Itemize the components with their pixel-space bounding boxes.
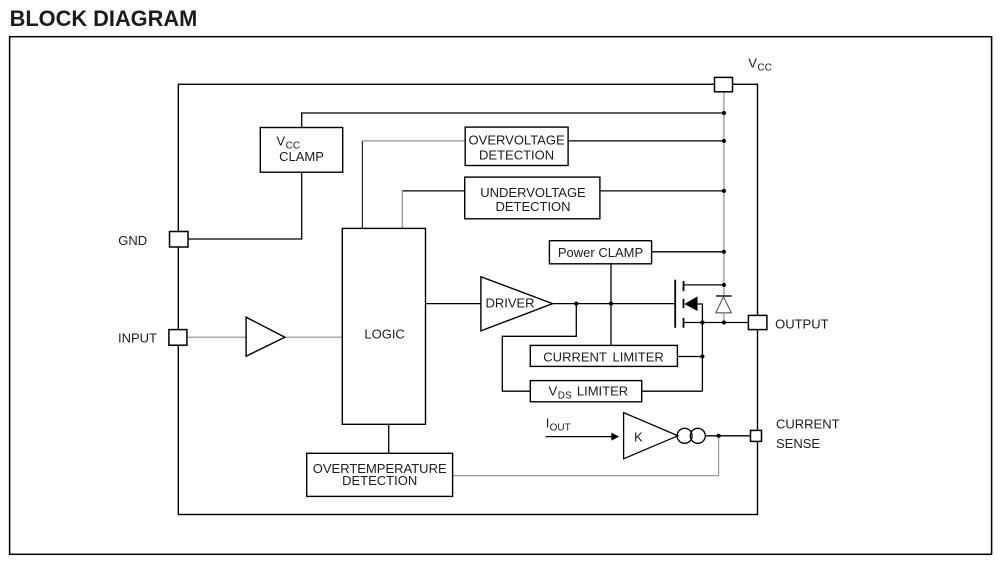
pin INPUT: [169, 330, 187, 346]
wire LOGIC to DRIVER: [426, 303, 481, 305]
svg-text:DS: DS: [558, 390, 572, 401]
label VCC: [748, 55, 772, 73]
current mirror circles: [677, 428, 705, 443]
node VCC rail junction: [722, 111, 726, 115]
block VDS LIMITER: [530, 381, 641, 402]
body arrow: [684, 296, 697, 311]
node undervoltage junction: [722, 189, 726, 193]
wire current sense to overtemperature (gray): [453, 436, 719, 476]
wire DRIVER to MOSFET gate: [553, 303, 676, 305]
svg-text:OVERVOLTAGE: OVERVOLTAGE: [469, 133, 565, 148]
wire VCC stem (gray): [723, 92, 725, 285]
block OVERVOLTAGE DETECTION: [465, 127, 568, 165]
block Power CLAMP: [549, 241, 651, 264]
wire VCC rail to VCC CLAMP: [302, 113, 724, 128]
wire VCC CLAMP bottom to GND pin: [180, 172, 302, 239]
pin GND: [170, 232, 189, 248]
wire undervoltage right to VCC stem: [600, 190, 724, 192]
svg-text:OUT: OUT: [550, 423, 571, 434]
svg-text:CLAMP: CLAMP: [279, 149, 324, 164]
node power clamp gate junction: [609, 302, 613, 306]
wire power clamp right to VCC stem: [652, 251, 724, 253]
pin CURRENT SENSE: [751, 430, 762, 441]
label IOUT: [546, 416, 571, 434]
wire buffer to LOGIC (gray): [285, 336, 342, 338]
driver amplifier U-DRV: [481, 277, 553, 331]
svg-text:Power CLAMP: Power CLAMP: [558, 245, 643, 260]
channel segments: [683, 281, 685, 328]
transistor power MOSFET: [675, 280, 697, 328]
node gate feedback junction: [574, 302, 578, 306]
svg-text:SENSE: SENSE: [776, 436, 820, 451]
wire input pin to buffer (gray): [188, 336, 246, 338]
gate bar: [674, 280, 676, 328]
svg-text:CURRENT: CURRENT: [776, 417, 840, 432]
svg-text:DETECTION: DETECTION: [342, 473, 417, 488]
wire VDS limiter output: [642, 390, 703, 392]
current sense amplifier K: [624, 413, 678, 459]
block LOGIC: [342, 228, 425, 424]
svg-text:DRIVER: DRIVER: [485, 296, 534, 311]
svg-text:V: V: [276, 133, 285, 148]
wire overvoltage right to VCC stem: [568, 140, 724, 142]
svg-text:V: V: [549, 383, 558, 398]
junction dots: [574, 111, 726, 438]
node source junction left: [700, 320, 704, 324]
svg-text:LOGIC: LOGIC: [364, 327, 404, 342]
wire current limiter output: [677, 356, 702, 358]
svg-text:V: V: [748, 55, 757, 70]
node power clamp junction: [722, 250, 726, 254]
wire undervoltage left: [402, 190, 464, 192]
wire current sense node to pin: [705, 435, 750, 437]
block UNDERVOLTAGE DETECTION: [465, 177, 600, 219]
svg-text:CC: CC: [757, 62, 771, 73]
wire undervoltage stub to LOGIC (gray): [401, 191, 403, 229]
node overvoltage junction: [722, 139, 726, 143]
node drain junction: [722, 283, 726, 287]
wire MOSFET drain: [684, 284, 724, 286]
label CURRENT SENSE: [776, 417, 840, 452]
svg-text:DETECTION: DETECTION: [495, 199, 570, 214]
svg-text:OUTPUT: OUTPUT: [775, 316, 829, 331]
IOUT arrow: [546, 433, 620, 441]
svg-text:LIMITER: LIMITER: [577, 383, 628, 398]
pin OUTPUT: [748, 315, 767, 329]
block CURRENT LIMITER: [530, 345, 677, 366]
wire body/source vertical node: [698, 304, 703, 391]
wire overvoltage left (gray): [362, 140, 465, 142]
buffer amplifier (input): [246, 317, 285, 356]
IC outline: [178, 84, 757, 514]
wire overvoltage stub to LOGIC: [361, 141, 363, 229]
node source junction right: [722, 320, 726, 324]
wire LOGIC bottom to overtemperature: [388, 424, 390, 453]
wire gate feedback to VDS limiter input: [502, 304, 576, 392]
svg-text:LIMITER: LIMITER: [613, 349, 664, 364]
node current limiter junction: [700, 354, 704, 358]
svg-text:INPUT: INPUT: [118, 330, 157, 345]
svg-text:UNDERVOLTAGE: UNDERVOLTAGE: [480, 185, 586, 200]
svg-text:CURRENT: CURRENT: [543, 349, 607, 364]
node current sense junction: [717, 434, 721, 438]
pin VCC: [715, 77, 733, 91]
block VCC CLAMP: [260, 128, 342, 173]
wire power clamp bottom through gate node to current limiter: [610, 264, 612, 346]
svg-text:GND: GND: [118, 233, 147, 248]
svg-text:DETECTION: DETECTION: [479, 147, 554, 162]
svg-text:K: K: [634, 430, 643, 445]
wire MOSFET source to OUTPUT pin: [684, 322, 749, 324]
diode (body diode): [716, 285, 732, 323]
svg-text:BLOCK DIAGRAM: BLOCK DIAGRAM: [10, 6, 198, 31]
block OVERTEMPERATURE DETECTION: [307, 453, 453, 496]
